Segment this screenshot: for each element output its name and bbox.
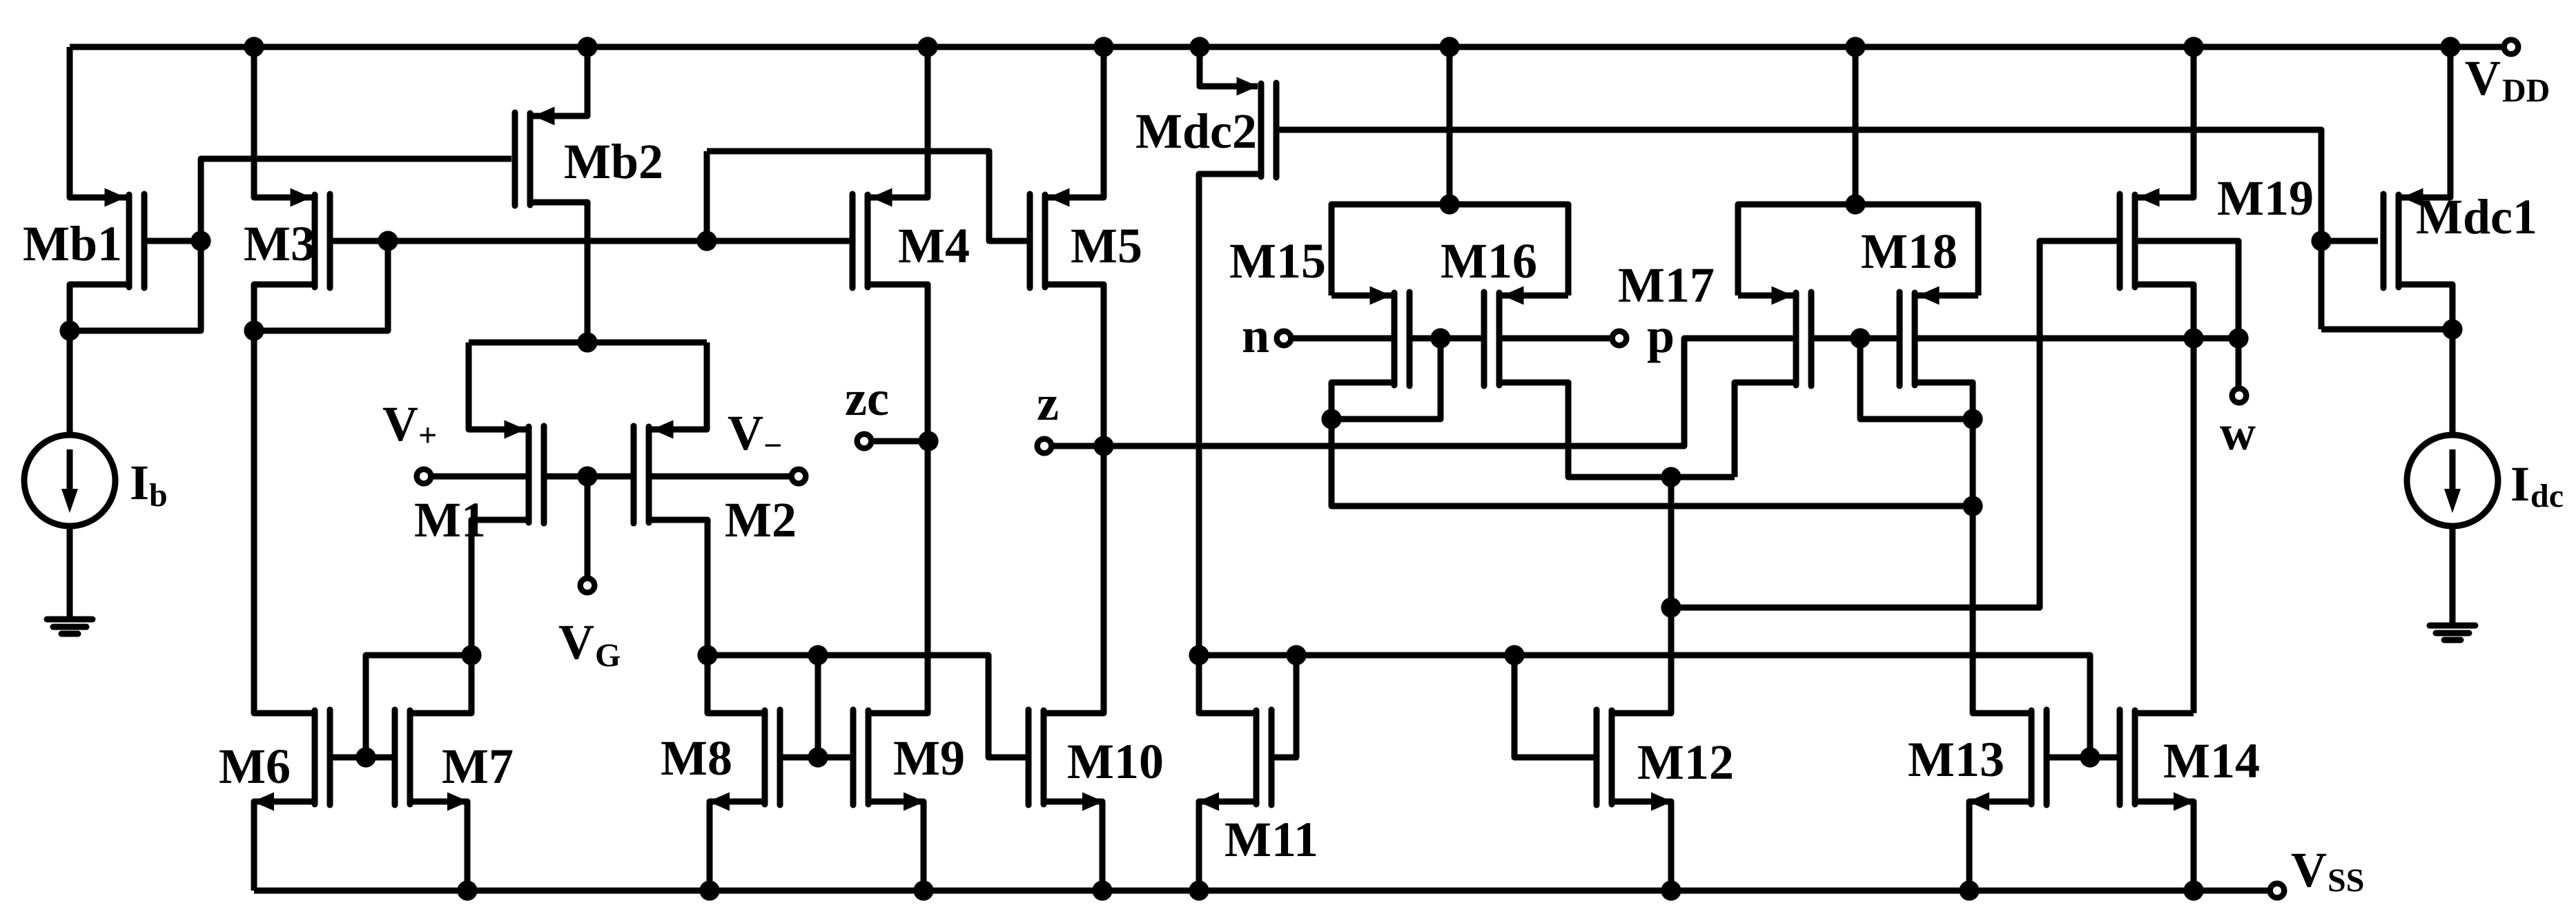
wire M15 M16 source box: [1331, 204, 1568, 295]
junction VSS at M11: [1189, 880, 1209, 900]
wire M4 drain to zc and M9: [868, 284, 928, 713]
svg-text:Mb1: Mb1: [23, 216, 122, 271]
wire Mdc1 diode tie: [2321, 327, 2452, 333]
transistor M15: [1370, 287, 1410, 387]
label Idc: [2510, 456, 2564, 514]
junction M18 drain diode node: [1962, 409, 1982, 429]
junction M6 M7 gate node: [355, 747, 375, 767]
wire M19 source from VDD: [2138, 47, 2194, 197]
svg-text:Mdc1: Mdc1: [2416, 189, 2537, 244]
transistor M14: [2120, 710, 2135, 805]
wire M7 gate lead: [366, 755, 395, 761]
label VSS: [2291, 842, 2364, 899]
wire Mb1 gate lead: [144, 238, 201, 244]
junction VDD at Mb2: [577, 37, 597, 57]
wire Mdc1 source from VDD: [2401, 47, 2450, 197]
label M4: [898, 218, 970, 273]
transistor M3: [291, 188, 331, 289]
label M8: [661, 730, 732, 786]
wire M5 gate feed over M4: [707, 151, 1028, 241]
wire M12 gate feed: [1514, 655, 1594, 757]
wire M14 drain up: [2135, 710, 2194, 717]
wire M11 source to VSS: [1199, 802, 1256, 891]
wire Ib to ground: [67, 523, 73, 619]
wire M8 M9 gate riser: [815, 655, 821, 757]
wire M17 M18 gate tie: [1811, 336, 1900, 342]
wire M16 drain to M17 drain: [1499, 382, 1735, 477]
junction M8 M9 gate node: [808, 747, 828, 767]
svg-text:M11: M11: [1224, 812, 1318, 867]
wire M15 M16 gate tie: [1409, 336, 1484, 342]
terminal V+: [417, 469, 431, 484]
wire M15 source stub: [1331, 293, 1392, 299]
junction VDD at Mdc2: [1189, 37, 1209, 57]
junction gate line at M2 source: [696, 231, 716, 251]
svg-text:DD: DD: [2502, 72, 2550, 109]
transistor M4: [852, 188, 892, 289]
label M13: [1908, 732, 2004, 787]
wire M1 gate lead: [544, 474, 587, 480]
arrow M12 source: [1651, 793, 1672, 811]
svg-text:zc: zc: [845, 371, 889, 426]
junction VDD at M4: [917, 37, 937, 57]
wire M1 drain to M7: [413, 520, 529, 713]
svg-text:V: V: [728, 405, 763, 460]
transistor M12: [1597, 710, 1612, 805]
wire Mdc1 gate lead line: [2321, 238, 2378, 244]
label z: [1037, 376, 1059, 431]
terminal z: [1037, 439, 1052, 454]
terminal V-: [792, 469, 806, 484]
arrow M11 source: [1198, 793, 1219, 811]
wire z lead: [1051, 443, 1104, 449]
wire M5 drain to z and M10: [1045, 284, 1104, 713]
label Mdc1: [2416, 189, 2537, 244]
wire M10 source to VSS: [1044, 802, 1102, 891]
junction z node: [1093, 436, 1113, 456]
wire n lead: [1291, 336, 1392, 342]
wire M15 gate to drain tie: [1331, 338, 1441, 419]
wire M3 source from VDD: [254, 47, 312, 197]
transistor M11: [1256, 710, 1271, 805]
label M18: [1861, 224, 1958, 279]
wire Mb2 drain to tail: [530, 202, 587, 342]
junction M12 drain at 880 line: [1661, 597, 1681, 617]
wire M2 gate lead: [587, 474, 634, 480]
wire Mb2 source from VDD: [533, 47, 587, 116]
wire M2 source to gate line riser: [704, 151, 710, 241]
svg-text:M16: M16: [1441, 233, 1537, 289]
wire M3 drain down to M6: [254, 284, 315, 713]
svg-text:Mdc2: Mdc2: [1135, 104, 1257, 159]
label zc: [845, 371, 889, 426]
junction M2 drain node: [697, 645, 717, 665]
wire M3-M4 gate line: [330, 238, 852, 244]
label M17: [1618, 258, 1715, 313]
wire Mb1 drain to bias node: [70, 284, 129, 331]
svg-text:V: V: [382, 396, 418, 452]
wire Mdc2 drain to M11: [1199, 174, 1261, 713]
terminal VSS: [2270, 884, 2285, 898]
wire M7 source to VSS: [410, 802, 467, 891]
svg-text:n: n: [1242, 308, 1269, 363]
label M5: [1071, 218, 1142, 273]
transistor M1: [505, 420, 545, 524]
svg-text:w: w: [2220, 405, 2256, 460]
svg-text:b: b: [149, 477, 168, 514]
junction M15 drain node: [1321, 409, 1341, 429]
transistor M6: [315, 710, 330, 805]
junction M11 diode node: [1189, 645, 1209, 665]
transistor Mb2: [515, 107, 555, 206]
wire M15 M16 source box riser: [1447, 47, 1453, 204]
transistor M10: [1028, 710, 1044, 805]
arrow M8 source: [708, 793, 730, 811]
svg-text:M17: M17: [1618, 258, 1715, 313]
wire M8 gate lead: [780, 755, 818, 761]
arrow M9 source: [904, 793, 925, 811]
svg-text:−: −: [763, 427, 782, 464]
label VG: [558, 614, 621, 674]
wire M2 drain line to M10 gate: [708, 655, 1027, 757]
wire M12 source to VSS: [1612, 802, 1671, 891]
junction M1 drain node: [461, 645, 481, 665]
wire M8 source to VSS: [710, 802, 765, 891]
junction source box M17 M18: [1845, 194, 1865, 214]
transistor M13: [2031, 710, 2047, 805]
arrow M7 source: [447, 793, 469, 811]
arrow M10 source: [1082, 793, 1104, 811]
svg-text:p: p: [1647, 308, 1675, 363]
terminal VG: [580, 579, 595, 593]
label M3: [244, 216, 315, 271]
arrow M14 source: [2174, 793, 2195, 811]
junction VDD at Mdc1: [2440, 37, 2460, 57]
wire Mdc1 drain down: [2399, 284, 2452, 329]
label M2: [725, 492, 797, 547]
label M1: [414, 492, 486, 547]
junction VDD at M3: [244, 37, 264, 57]
transistor M17: [1772, 287, 1812, 387]
wire M17 drain down: [1735, 382, 1796, 477]
terminal zc: [857, 434, 872, 449]
wire Mdc2 source from VDD: [1200, 47, 1258, 86]
label Mb1: [23, 216, 122, 271]
wire zc lead: [871, 438, 928, 445]
wire Mdc1 drain to Idc: [2450, 329, 2456, 438]
junction VDD at M17 M18: [1845, 37, 1865, 57]
wire M6 gate lead: [330, 755, 366, 761]
svg-text:M19: M19: [2217, 171, 2314, 226]
svg-text:M3: M3: [244, 216, 315, 271]
terminal p: [1612, 331, 1627, 346]
junction Mb1 gate tie: [191, 231, 211, 251]
label M9: [893, 730, 965, 786]
label M12: [1637, 735, 1734, 790]
svg-text:I: I: [2510, 456, 2530, 512]
wire M15 drain down: [1331, 382, 1973, 506]
junction VDD at M5: [1093, 37, 1113, 57]
label VDD: [2465, 50, 2550, 109]
junction tail node: [577, 332, 597, 352]
wire M12 drain riser: [1614, 477, 1671, 713]
ground right: [2430, 625, 2475, 640]
svg-text:M7: M7: [442, 739, 514, 794]
junction Mdc1 drain node: [2442, 319, 2462, 339]
label M10: [1067, 734, 1164, 789]
svg-text:M13: M13: [1908, 732, 2004, 787]
svg-text:I: I: [130, 455, 149, 510]
wire M19 drain to M14: [2191, 338, 2197, 713]
wire M17 source stub: [1738, 293, 1793, 299]
wire V+ lead: [431, 474, 526, 480]
wire M18 source stub: [1918, 293, 1978, 299]
svg-text:M5: M5: [1071, 218, 1142, 273]
transistor Mdc2: [1237, 77, 1277, 178]
junction VSS at M7: [457, 880, 477, 900]
transistor M9: [853, 710, 868, 805]
label Ib: [130, 455, 168, 514]
terminal n: [1277, 331, 1291, 346]
wire M9 gate lead: [818, 755, 853, 761]
transistor M2: [634, 420, 674, 524]
junction VSS at M10: [1092, 880, 1112, 900]
wire M14 gate lead: [2090, 755, 2120, 761]
svg-text:M8: M8: [661, 730, 732, 786]
wire M9 source to VSS: [868, 802, 924, 891]
label Mb2: [564, 134, 663, 189]
wire M2 drain to M8: [649, 520, 762, 713]
svg-text:V: V: [2291, 842, 2327, 898]
junction VG node: [577, 466, 597, 486]
wire M1 drain to M6 M7 gates: [366, 655, 471, 757]
junction VSS at M14: [2183, 880, 2203, 900]
wire VSS rail: [254, 888, 2267, 894]
wire M11 drain line to M13 M14 gates: [1199, 655, 2090, 757]
transistor M5: [1030, 188, 1070, 289]
svg-text:M18: M18: [1861, 224, 1958, 279]
wire M4 source from VDD: [870, 47, 928, 197]
wire bias node to Ib: [67, 331, 73, 438]
wire M2 source: [652, 342, 707, 429]
junction M3 drain node: [244, 320, 264, 340]
wire M18 drain to M13: [1915, 382, 2029, 713]
label M11: [1224, 812, 1318, 867]
svg-text:M10: M10: [1067, 734, 1164, 789]
junction M17 M18 gate node: [1850, 328, 1870, 348]
current source Idc: [2407, 435, 2498, 526]
wire Idc to ground: [2450, 523, 2456, 625]
wire M1 source: [469, 342, 526, 429]
arrow M6 source: [253, 793, 274, 811]
wire M18 bulk to w line: [1918, 336, 2238, 342]
current source Ib: [24, 435, 115, 526]
junction Mb1 drain node: [59, 320, 79, 340]
svg-text:M4: M4: [898, 218, 970, 273]
svg-text:V: V: [2465, 50, 2501, 106]
wire M17 M18 source box riser: [1853, 47, 1859, 204]
arrow M13 source: [1968, 793, 1989, 811]
junction VDD at M15 M16: [1439, 37, 1459, 57]
junction VSS at M13: [1959, 880, 1979, 900]
transistor Mdc1: [2383, 188, 2423, 289]
label M19: [2217, 171, 2314, 226]
label M16: [1441, 233, 1537, 289]
svg-text:+: +: [418, 417, 437, 454]
wire M13 source to VSS: [1969, 802, 2031, 891]
wire M19 drain down: [2135, 284, 2194, 338]
label M7: [442, 739, 514, 794]
wire M5 source from VDD: [1048, 47, 1104, 197]
label n: [1242, 308, 1269, 363]
junction gate line at M3 tie: [378, 231, 398, 251]
label w: [2220, 405, 2256, 460]
svg-text:V: V: [558, 614, 594, 670]
svg-text:M9: M9: [893, 730, 965, 786]
svg-text:M2: M2: [725, 492, 797, 547]
wire Mb1 source from VDD rail: [70, 47, 126, 197]
junction Mdc1 gate node: [2311, 231, 2331, 251]
junction M13 M14 gate node: [2080, 747, 2100, 767]
svg-text:M6: M6: [219, 739, 291, 794]
wire M19 gate to M12 drain: [1671, 241, 2120, 608]
terminal VDD: [2504, 40, 2519, 55]
transistor M19: [2120, 188, 2160, 289]
transistor M7: [395, 710, 410, 805]
wire VG drop: [585, 476, 591, 579]
wire M19 bulk tap: [2138, 241, 2238, 338]
label p: [1647, 308, 1675, 363]
junction VSS at M9: [913, 880, 933, 900]
transistor Mb1: [105, 188, 145, 289]
junction M15 M16 gate node: [1430, 328, 1450, 348]
wire M16 source stub: [1502, 293, 1568, 299]
junction VSS at M12: [1661, 880, 1681, 900]
svg-text:SS: SS: [2328, 862, 2364, 899]
wire M3 diode tie: [254, 241, 388, 331]
label V+: [382, 396, 437, 454]
wire V- lead: [652, 474, 792, 480]
wire w drop: [2236, 338, 2242, 389]
svg-text:G: G: [595, 637, 621, 674]
wire VDD rail: [70, 44, 2501, 50]
wire M13 gate lead: [2047, 755, 2090, 761]
junction source box M15 M16: [1439, 194, 1459, 214]
svg-text:M14: M14: [2163, 733, 2260, 788]
label V-: [728, 405, 782, 464]
svg-text:Mb2: Mb2: [564, 134, 663, 189]
wire M17 M18 source box: [1738, 204, 1978, 295]
svg-text:dc: dc: [2530, 478, 2564, 514]
junction M12 gate riser: [1504, 645, 1524, 665]
wire z line to M17 bulk: [1104, 338, 1793, 446]
svg-text:M15: M15: [1229, 233, 1326, 289]
transistor M18: [1900, 287, 1940, 387]
junction M16 M17 drain node: [1661, 467, 1681, 487]
junction M19 drain node: [2183, 328, 2203, 348]
wire tail box: [469, 340, 707, 346]
junction M8 M9 gate riser: [808, 645, 828, 665]
ground left: [47, 619, 92, 634]
transistor M8: [765, 710, 780, 805]
terminal w: [2232, 389, 2247, 403]
label Mdc2: [1135, 104, 1257, 159]
junction VSS at M8: [699, 880, 719, 900]
wire Mdc2 gate line to Mdc1: [1276, 130, 2321, 329]
wire p lead: [1502, 336, 1612, 342]
wire Mb1 diode tie and Mb2 gate line: [70, 159, 511, 331]
label M14: [2163, 733, 2260, 788]
label M6: [219, 739, 291, 794]
junction M18 drain at 733 line: [1962, 496, 1982, 516]
wire M17 M18 gate to M18 drain: [1860, 338, 1973, 419]
wire M14 source to VSS: [2135, 802, 2194, 891]
wire M6 source to VSS: [254, 802, 315, 891]
junction VDD at M19: [2183, 37, 2203, 57]
transistor M16: [1484, 287, 1524, 387]
label M15: [1229, 233, 1326, 289]
junction w node: [2228, 328, 2248, 348]
junction M11 gate riser: [1286, 645, 1306, 665]
junction zc node: [918, 431, 938, 451]
svg-text:M12: M12: [1637, 735, 1734, 790]
svg-text:z: z: [1037, 376, 1059, 431]
wire M11 gate lead: [1271, 655, 1296, 757]
